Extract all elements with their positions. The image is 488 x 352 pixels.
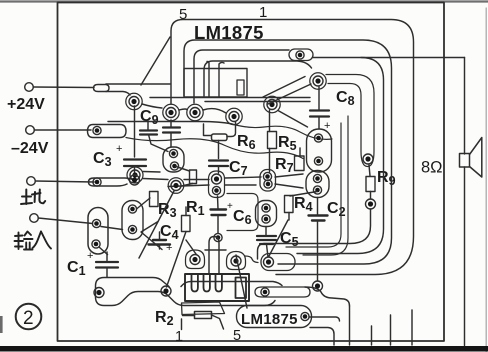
small loop left of stadium [245,256,258,263]
pad pin5 top [166,108,176,118]
pad r oval top [313,174,321,182]
C6 enclosure trace [227,194,258,231]
gnd bus segment 2 [168,180,209,187]
C4 lead [159,232,161,249]
R6 lead left [204,124,212,136]
-24V rail top edge [108,122,232,125]
R1 lead up [185,207,187,216]
pad on gnd bus [130,170,140,180]
trace T2 [184,40,392,264]
GND wide trace from terminal [89,178,136,186]
R9 lead low [370,192,372,200]
loop around pin2 pad [264,96,280,112]
R2 leads [183,315,224,329]
svg-text:5: 5 [233,328,241,344]
diagonal wide link pin2 to C8 pad [263,77,311,105]
unlabeled cap lead up [147,122,149,131]
capacitor C9 [163,128,180,133]
R4 diag lead [290,192,317,197]
wire IN [38,218,92,224]
small resistor rect mid [190,170,197,184]
output branch down right side [297,58,384,254]
C2 leads [317,198,319,282]
circled figure number 2 [16,304,42,330]
label IN (Chinese: shu ru) [15,232,52,250]
pad row b [231,256,241,266]
pad input top [92,219,100,227]
wire tick above bottom 1 [181,319,183,330]
resistor R7 body [295,156,305,171]
band link pin5-pin4 [179,109,187,110]
wavy trace lower [126,138,303,159]
capacitor C5 [257,236,276,244]
unlabeled cap lead to oval pad [149,135,169,152]
loop around pin3 pad [226,108,242,124]
pad bus b2 [212,186,220,194]
pad bus b (C7 bottom) [212,174,222,184]
capacitor unlabeled near C9 [140,131,157,135]
C6 rounded pad box [256,201,277,227]
svg-text:R7: R7 [275,156,294,175]
exit wire 2 [371,326,373,345]
diag pin2 to big oval [278,111,308,128]
pad bus c lower [264,180,272,188]
svg-text:C3: C3 [93,150,112,169]
C9 lead down [170,133,172,148]
pad bus c upper [263,172,271,180]
loop around bus pads [209,171,225,198]
svg-text:C9: C9 [140,108,159,127]
+24V entry pad hook [94,85,110,92]
pad in oval top [169,149,177,157]
speaker return wire [464,167,466,346]
resistor R3 body [150,192,159,207]
C8 lead down [318,117,320,130]
wide trace band from C8 pad to R9 [326,75,374,167]
trace T1 outer loop [171,20,414,275]
resistor R1 body [182,216,191,232]
label GND (Chinese: di) [21,190,45,205]
C2/C8 enclosing traces [286,123,341,247]
R9 lead [369,165,370,176]
svg-text:R9: R9 [377,169,396,188]
C8 capacitor [310,111,329,117]
band link pad134 to pin5 loop [142,104,162,108]
row loop around pad195 [186,250,205,269]
pad out trace [261,288,269,296]
pad C8 top [313,76,323,86]
rail lines under IC [150,98,310,102]
pad C2 bottom [313,281,323,291]
svg-text:C5: C5 [280,230,299,249]
top IC outline LM1875 [184,69,247,98]
wire +24V [33,86,94,89]
R3 diag lead [137,198,151,209]
svg-text:1: 1 [259,4,267,21]
resistor R5 body [268,132,277,149]
speaker horn [470,138,482,178]
C7 lead down [218,166,220,173]
output stadium pad (pin4) [289,49,313,61]
right oval pad group (C2 top) [306,171,329,198]
pad drv top [128,205,136,213]
wire -24V [34,129,91,131]
exit wire 1 [349,306,351,345]
vertical wire C7 pads down [217,196,220,233]
pad in oval bottom [170,162,178,170]
wide trace quad above R2 [182,302,225,315]
bottom IC outline LM1875 [185,274,249,301]
svg-text:+: + [227,201,233,212]
output pad dot [296,51,304,59]
bottom IC inner rect [236,278,247,299]
resistor R2 body [195,312,212,319]
terminal +24V ring [25,83,34,92]
svg-text:R5: R5 [278,134,297,153]
trace line above row [205,249,226,251]
gnd bus middle [143,172,168,180]
wide vertical trace into IC [209,237,219,275]
diag wire pad to IC [186,240,196,254]
svg-text:8Ω: 8Ω [421,159,443,177]
C1 capacitor [96,262,118,268]
page right scan edge [485,8,487,352]
pad drv bottom [128,225,136,233]
pad R9 bottom [366,199,376,209]
LM1875 bottom stadium label [237,306,312,328]
resistor R9 body [366,177,375,192]
exit wire 4 [411,310,413,345]
svg-text:2: 2 [23,308,34,329]
R4 lead down [288,213,290,221]
page top scan edge [0,0,488,2]
diagonal jumper from T1 to +24V pad [141,37,170,85]
top IC wide slot pair [209,69,219,98]
wire GND [35,181,94,182]
driver pads left column oval [122,201,143,240]
trace T3 to output pad [194,50,289,103]
loop around pad mid b [168,178,184,194]
svg-text:C7: C7 [229,159,248,178]
R7 lead up [299,148,301,156]
loop around C8 top pad [310,73,326,89]
terminal -24V ring [26,126,35,135]
svg-text:C2: C2 [327,200,346,219]
svg-text:R6: R6 [237,133,256,152]
resistor R6 body [212,134,228,141]
loop around pin4 pad [187,104,203,120]
capacitor C6 bars [211,210,227,216]
pad input bottom [92,240,100,248]
svg-text:+: + [116,143,122,155]
svg-text:R4: R4 [294,195,313,214]
pad in big oval top [314,134,322,142]
diag wire input to R3 [99,227,123,255]
C5 leads [266,227,268,257]
C9 lead up [170,120,172,128]
svg-text:+24V: +24V [7,96,45,113]
pad GND [93,178,101,186]
svg-text:+: + [166,242,172,254]
stadium pad wire right [309,317,340,321]
loop around pin5 pad [163,104,179,120]
capacitor C4 [149,240,171,245]
svg-text:1: 1 [175,329,183,345]
top IC small inner rect [237,80,244,95]
bottom separator thick bar [0,346,488,352]
diag wire R4 to pad [269,220,288,256]
C3 lead up to +24 pad [134,106,136,157]
speaker wire horizontal [313,57,465,59]
output wide trace [255,287,310,297]
C4 diag wire [141,222,162,250]
exit wire 5 from stadium bottom [310,328,334,346]
capacitor C3 [124,160,146,167]
terminal GND ring [27,177,36,186]
C2 capacitor [309,216,328,221]
pad on stadium [301,312,309,320]
loop around pad bus c pair [260,170,276,192]
resistor R4 body [285,196,294,213]
bus link to right oval [275,174,303,188]
R1 lead down diag [167,232,187,288]
capacitor C7 [209,161,228,167]
pad C6 top [262,204,270,212]
pad above C5 row [264,257,274,267]
input vertical oval pad [88,208,108,255]
pad bl 2 [161,286,171,296]
pad mid a [130,175,140,185]
pad pin4 top [190,108,200,118]
speaker box [460,154,470,168]
loop around pad134 [126,93,142,109]
diag wire long to stadium [236,255,247,308]
pad in big oval bottom [314,157,322,165]
pad pin2 top [267,100,277,110]
+24V band bottom edge + slope to pad loop [106,92,130,96]
R5 lead down [269,110,271,172]
svg-text:–24V: –24V [11,140,49,157]
bottom-left big U trace [96,278,283,306]
C7 lead down from R6 [219,122,236,159]
pad R9 top [363,154,373,164]
left edge scan smudge [0,316,3,333]
svg-text:LM1875: LM1875 [241,311,298,328]
band link pin4-pin3 [203,109,226,113]
pad pin3 top [229,112,239,122]
bottom IC slots [192,274,222,292]
loop around gnd pad135 [127,167,143,183]
R9 trace to B1 [258,209,371,259]
gnd bus segment 3 [225,177,261,185]
+24V band top edge [106,83,170,85]
pad -24V [93,126,101,134]
svg-text:R2: R2 [155,309,174,328]
C8 lead up [318,87,320,111]
wide trace bend into slot [207,62,224,69]
big oval around C8 bottom pads [307,129,332,172]
border frame [58,3,445,342]
svg-text:5: 5 [179,6,187,23]
svg-text:C6: C6 [233,208,252,227]
stadium loop around pad 268 [261,254,295,271]
svg-text:C8: C8 [336,89,355,108]
middle oval pad group (driver) [163,147,184,172]
exit wire 3 [390,315,392,345]
speaker wire down to speaker [464,58,466,155]
wavy trace upper [232,124,332,139]
diag wire from mid pad to C1 area [139,191,174,258]
pad C6 bottom [262,215,270,223]
svg-text:C1: C1 [67,259,86,278]
pad mid b [171,181,181,191]
output jog to exit wire [305,287,350,306]
-24V stadium trace [88,125,127,138]
row loop around pad236 [227,252,246,270]
terminal IN ring [30,214,39,223]
C1 leads [106,252,108,277]
pad r oval bottom [313,186,321,194]
trace T4 [204,61,312,96]
oval pad to mid rect diagonal [176,167,190,172]
mid rect to pad diagonal [182,184,193,187]
pad bl 1 [94,288,104,298]
pad on +24V trace [129,97,139,107]
C3 lead down [134,166,136,176]
pad row a [190,255,200,265]
pad row c (above) [214,233,222,241]
